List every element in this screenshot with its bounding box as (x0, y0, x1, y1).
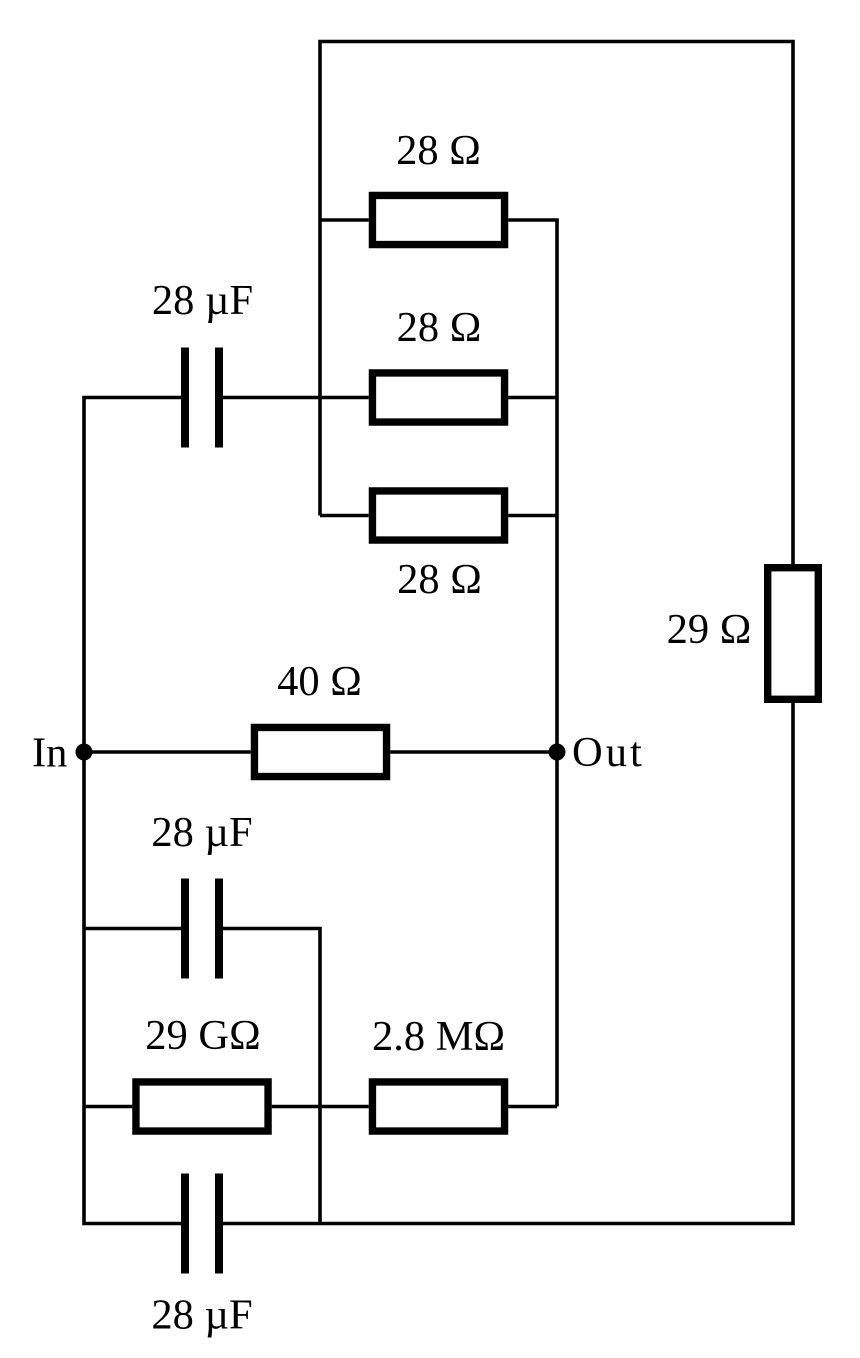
svg-text:29 GΩ: 29 GΩ (145, 1012, 260, 1059)
node In dot (76, 744, 93, 761)
svg-text:29 Ω: 29 Ω (667, 606, 752, 653)
node Out dot (549, 744, 566, 761)
svg-text:2.8 MΩ: 2.8 MΩ (372, 1013, 505, 1060)
wire: bank rail + top wire + right rail upper (320, 42, 793, 565)
resistor R1 28ohm top (372, 195, 504, 244)
wire: right rail lower + bottom wire right segment (219, 703, 794, 1224)
wire: 2.8M right lead (508, 1105, 557, 1109)
wire: R2 right lead (508, 396, 557, 400)
resistor R2 28ohm middle (372, 373, 504, 422)
svg-text:40 Ω: 40 Ω (277, 658, 362, 705)
wire: R3 left lead (320, 514, 369, 518)
wire: R3 right lead (508, 514, 557, 518)
wire: cap2 left lead (84, 927, 185, 931)
capacitor C2 28uF middle plates (181, 879, 189, 979)
wire: In node to 40ohm (84, 750, 251, 754)
svg-text:28 Ω: 28 Ω (397, 304, 482, 351)
svg-text:28 Ω: 28 Ω (397, 556, 482, 603)
svg-text:Out: Out (572, 729, 645, 776)
resistor R5 40ohm (254, 727, 386, 776)
wire: cap1 right lead to R2 (219, 396, 369, 400)
svg-text:28 µF: 28 µF (151, 809, 252, 856)
wire: 40ohm to Out node (390, 750, 557, 754)
svg-text:28 Ω: 28 Ω (396, 127, 481, 174)
wire: R1 left lead (320, 218, 369, 222)
svg-text:28 µF: 28 µF (151, 1292, 252, 1339)
wire: 29G to 2.8M lead (272, 1105, 369, 1109)
wire: cap2 right lead + lower mid rail (219, 929, 321, 1224)
resistor R6 29Gohm (136, 1082, 268, 1131)
capacitor C3 28uF bottom plates (181, 1174, 189, 1274)
resistor R3 28ohm bottom of bank (372, 491, 504, 540)
wire: 29G left lead (84, 1105, 132, 1109)
capacitor C1 28uF upper plates (181, 348, 189, 448)
resistor R7 2.8Mohm (372, 1082, 504, 1131)
resistor R4 29ohm right vertical (768, 568, 819, 700)
svg-text:28 µF: 28 µF (152, 277, 253, 324)
wire: R1 right lead + Out rail (508, 220, 557, 1107)
wire: left rail with cap1 stub and bottom-left stub (84, 398, 185, 1224)
svg-text:In: In (32, 730, 67, 777)
